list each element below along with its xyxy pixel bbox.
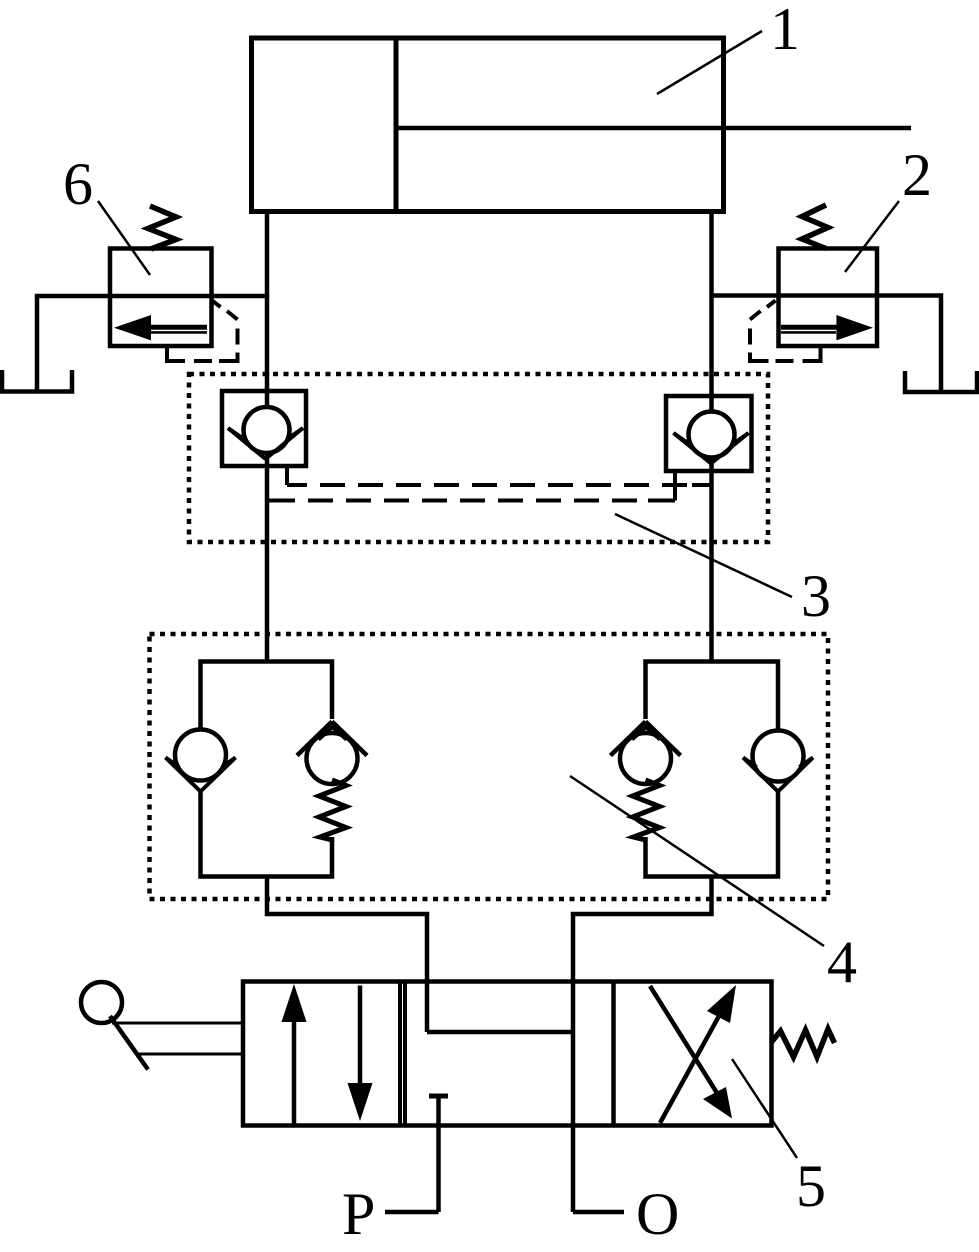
pilot check valve right seat — [674, 433, 749, 464]
down arrow — [348, 986, 373, 1122]
divider line b — [403, 982, 407, 1126]
cylinder 1 body — [252, 38, 724, 212]
leader line 2 — [845, 201, 899, 272]
svg-text:3: 3 — [801, 563, 831, 629]
pilot check valve left ball — [244, 407, 290, 453]
svg-text:4: 4 — [827, 929, 857, 995]
blocked P port symbol — [429, 1096, 448, 1212]
wire relief valve 6 to tank — [37, 296, 267, 391]
relief valve 2 spring — [802, 205, 828, 249]
left bridge top — [201, 662, 333, 732]
svg-text:6: 6 — [63, 151, 93, 217]
center position link — [427, 1030, 573, 1035]
wire right bridge outlet to O line — [573, 877, 712, 1213]
O port stub — [573, 1210, 624, 1215]
pilot crossover line upper — [287, 483, 712, 487]
lever link upper — [112, 1022, 243, 1025]
crossed arrow SE — [650, 986, 732, 1119]
spring left-inner — [319, 780, 346, 840]
leader line 1 — [657, 31, 762, 94]
pilot check valve right ball — [689, 412, 735, 458]
svg-text:O: O — [636, 1181, 679, 1247]
pilot stub left — [285, 466, 289, 485]
lever link lower — [139, 1053, 243, 1056]
lever knob — [81, 982, 122, 1023]
check valve seat left-inner — [297, 722, 367, 756]
leader line 5 — [732, 1059, 797, 1158]
leader line 4 — [570, 776, 824, 946]
pilot check valve left body — [222, 391, 306, 466]
right bridge top — [646, 662, 779, 733]
wire left cylinder port to check valve — [265, 212, 270, 664]
relief valve 6 body — [110, 249, 212, 347]
tank right — [905, 371, 977, 392]
right bridge bottom — [646, 792, 779, 877]
dotted box 3 — [189, 374, 768, 542]
cylinder 1 piston — [394, 38, 399, 212]
divider line c — [611, 982, 616, 1126]
wire relief valve 2 to tank — [712, 296, 942, 392]
pilot check valve right body — [666, 396, 752, 471]
leader line 3 — [615, 514, 792, 597]
relief valve 2 pilot line — [750, 301, 821, 362]
check valve ball right-inner — [620, 733, 671, 784]
wire right cylinder port to check valve — [709, 212, 714, 664]
check valve ball left-outer — [175, 730, 226, 781]
valve 5 spring — [772, 1029, 835, 1057]
wire left bridge outlet to valve A port — [267, 877, 427, 1033]
spring right-inner — [633, 780, 660, 840]
tank left — [2, 370, 72, 392]
check valve ball right-outer — [753, 731, 804, 782]
check valve ball left-inner — [307, 733, 358, 784]
pilot check valve left seat — [228, 428, 303, 459]
directional valve 5 body — [243, 982, 772, 1126]
svg-text:P: P — [342, 1181, 375, 1247]
pilot stub right — [673, 471, 677, 501]
dotted box 4 — [150, 634, 829, 899]
cylinder 1 rod — [396, 126, 911, 131]
divider line a — [398, 982, 402, 1126]
check valve seat right-outer — [743, 758, 813, 792]
check valve seat right-inner — [611, 722, 681, 756]
up arrow — [282, 984, 307, 1124]
relief valve 6 spring — [148, 206, 176, 249]
relief valve 6 pilot line — [167, 301, 238, 362]
svg-text:5: 5 — [796, 1153, 826, 1219]
leader line 6 — [98, 201, 150, 275]
relief valve 2 arrow — [781, 315, 873, 340]
svg-text:2: 2 — [902, 142, 932, 208]
P port stub — [385, 1210, 439, 1215]
pilot crossover line lower — [267, 499, 675, 503]
left bridge bottom — [201, 792, 333, 877]
relief valve 6 arrow — [114, 315, 207, 340]
lever rod — [110, 1016, 148, 1070]
check valve seat left-outer — [166, 758, 236, 792]
relief valve 2 body — [779, 249, 878, 347]
svg-text:1: 1 — [770, 0, 800, 62]
crossed arrow NE — [660, 985, 736, 1123]
